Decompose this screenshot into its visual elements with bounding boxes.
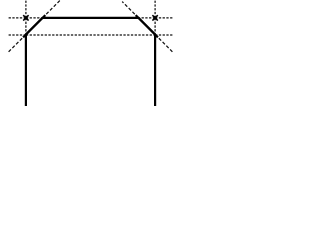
construction line: left vertical dashed, marker to chamfer foot (25, 18, 27, 35)
right chamfer edge with overshoot past both vertices (136, 15, 158, 37)
construction line: lower horizontal dashed, right extension (155, 34, 173, 36)
background (0, 0, 181, 106)
construction line: upper horizontal dashed, top-right corner to right marker (139, 17, 156, 19)
construction line: upper horizontal dashed, left marker to top-left corner (26, 17, 43, 19)
marker X: right intersection point (152, 15, 157, 20)
marker X: left intersection point (23, 15, 28, 20)
construction line: lower horizontal dashed, left extension (8, 34, 26, 36)
construction line: right vertical dashed above marker (154, 0, 156, 18)
construction line: right chamfer dashed extension, downward from chamfer foot (155, 35, 173, 53)
construction line: left chamfer dashed extension, downward from chamfer foot (8, 35, 26, 53)
construction line: right chamfer dashed extension, upward from top-right corner (122, 2, 138, 18)
construction line: left chamfer dashed extension, upward from top-left corner (43, 0, 61, 18)
construction line: left vertical dashed above marker (25, 0, 27, 18)
left chamfer edge with overshoot past both vertices (23, 15, 45, 37)
construction line: right vertical dashed, marker to chamfer foot (154, 18, 156, 35)
shape outline: thick chamfered polyline (26, 18, 155, 107)
construction line: upper horizontal dashed, right of right marker (155, 17, 173, 19)
construction line: lower horizontal dashed, middle span (26, 34, 155, 36)
construction line: upper horizontal dashed, left of left marker (8, 17, 26, 19)
